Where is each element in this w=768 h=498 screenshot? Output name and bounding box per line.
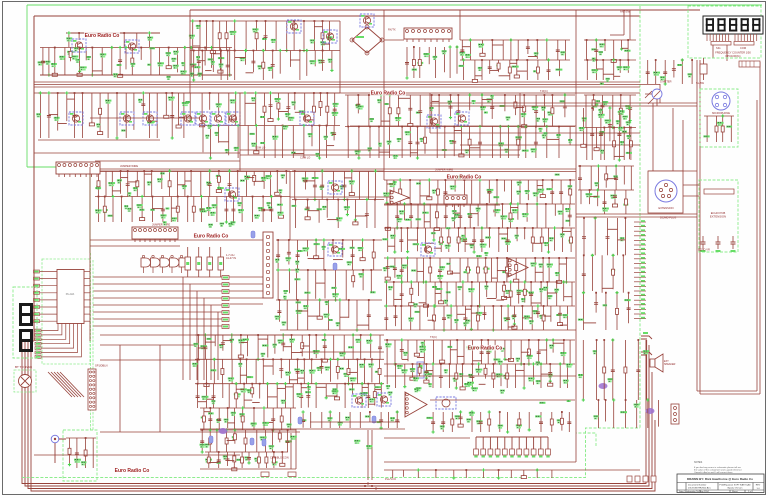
- wire: [235, 384, 237, 408]
- junction: [506, 257, 508, 259]
- label N152: [312, 177, 319, 179]
- capacitor C93: [75, 453, 79, 455]
- wire link: [314, 26, 322, 28]
- wire: [438, 95, 440, 127]
- wire: [507, 127, 509, 159]
- wire: [324, 270, 326, 299]
- wire: [107, 93, 109, 138]
- label N292: [375, 371, 382, 373]
- wire: [148, 33, 150, 47]
- node: [197, 73, 200, 76]
- junction: [277, 239, 279, 241]
- node: [215, 428, 218, 431]
- junction: [370, 334, 372, 336]
- junction: [218, 125, 220, 127]
- capacitor C37: [452, 141, 456, 143]
- resistor R11: [592, 100, 595, 106]
- wire: [613, 60, 615, 80]
- node: [396, 226, 399, 229]
- label N154: [340, 185, 345, 189]
- wire: [481, 95, 483, 127]
- wire link: [515, 107, 524, 109]
- label N250: [415, 311, 420, 313]
- label N50: [617, 66, 623, 70]
- junction: [453, 126, 455, 128]
- junction: [375, 488, 377, 490]
- connector pin row: [35, 324, 78, 354]
- wire: [287, 430, 289, 452]
- label N89: [291, 152, 296, 154]
- junction: [552, 339, 554, 341]
- wire link: [496, 299, 504, 301]
- wire: [119, 345, 121, 432]
- wire diagonal: [57, 372, 81, 397]
- wire: [362, 240, 364, 256]
- wire: [267, 384, 269, 408]
- wire: [227, 51, 229, 81]
- label N330: [365, 416, 370, 418]
- node: [288, 268, 291, 271]
- label N85: [234, 147, 239, 151]
- wire link: [420, 195, 429, 197]
- wire: [417, 204, 419, 228]
- wire: [330, 359, 332, 382]
- wire bus: [584, 39, 636, 41]
- wire: [387, 204, 389, 225]
- resistor R50: [222, 276, 229, 280]
- junction: [313, 92, 315, 94]
- label N328: [338, 422, 343, 426]
- wire: [394, 228, 396, 252]
- svg-text:EXTENSION: EXTENSION: [710, 215, 726, 219]
- wire: [149, 93, 151, 138]
- junction: [429, 257, 431, 259]
- wire: [306, 51, 308, 76]
- wire: [385, 306, 387, 330]
- capacitor C74: [351, 255, 355, 257]
- node: [438, 125, 441, 128]
- wire: [394, 340, 396, 364]
- junction: [74, 92, 76, 94]
- label N153: [319, 186, 324, 190]
- transistor Q11: [211, 112, 225, 125]
- wire: [569, 204, 571, 226]
- wire: [288, 240, 290, 265]
- junction: [371, 485, 373, 487]
- junction: [401, 126, 403, 128]
- label N237: [432, 286, 437, 288]
- label N145: [206, 207, 212, 211]
- label N11: [173, 65, 179, 69]
- junction: [206, 383, 208, 385]
- wire link: [487, 298, 497, 300]
- junction: [489, 227, 491, 229]
- wire: [100, 344, 195, 346]
- junction: [293, 20, 295, 22]
- pll enclosure: [42, 259, 90, 364]
- label N195: [456, 239, 460, 243]
- node: [47, 91, 50, 94]
- junction: [523, 94, 525, 96]
- junction: [603, 127, 605, 129]
- wire: [204, 48, 206, 66]
- junction: [444, 126, 446, 128]
- resistor R68: [505, 267, 508, 273]
- label N263: [81, 461, 87, 465]
- junction: [143, 170, 145, 172]
- junction: [276, 170, 278, 172]
- wire link: [603, 73, 614, 75]
- capacitor C24: [286, 107, 290, 109]
- wire main bus: [34, 81, 640, 83]
- wire: [358, 171, 360, 200]
- wire bus: [384, 179, 575, 181]
- wire: [202, 126, 204, 153]
- wire: [85, 48, 87, 61]
- junction: [530, 281, 532, 283]
- label N31: [268, 67, 273, 71]
- ic U1 mixer: [404, 28, 452, 42]
- wire link: [298, 377, 305, 379]
- wire: [407, 258, 409, 282]
- wire link: [504, 296, 511, 298]
- wire: [491, 258, 493, 282]
- node: [470, 328, 473, 331]
- junction: [272, 50, 274, 52]
- wire: [404, 364, 406, 387]
- wire: [629, 95, 631, 121]
- node: [330, 69, 333, 72]
- connector pin row: [35, 324, 62, 337]
- label N25: [327, 36, 333, 40]
- wire link: [508, 326, 514, 328]
- ground: [440, 358, 445, 363]
- node: [355, 328, 358, 331]
- svg-text:SP1/DBLN: SP1/DBLN: [95, 364, 108, 368]
- label N331: [377, 421, 381, 423]
- junction: [543, 305, 545, 307]
- wire link: [614, 75, 621, 77]
- capacitor C51: [320, 185, 324, 187]
- wire: [510, 282, 512, 306]
- node: [315, 382, 318, 385]
- wire: [387, 228, 389, 252]
- label N176: [405, 219, 411, 221]
- junction: [563, 281, 565, 283]
- wire: [586, 40, 588, 60]
- label N14: [218, 57, 224, 59]
- ground: [349, 191, 354, 196]
- wire: [206, 21, 208, 51]
- wire: [535, 127, 537, 159]
- capacitor C28: [408, 108, 412, 110]
- wire: [197, 359, 199, 383]
- capacitor C35: [408, 142, 412, 144]
- wire: [501, 204, 503, 228]
- wire: [491, 40, 493, 60]
- wire: [315, 335, 317, 358]
- junction: [542, 179, 544, 181]
- node: [385, 304, 388, 307]
- label N61: [423, 53, 429, 57]
- wire bus: [200, 92, 340, 94]
- capacitor C110: [200, 441, 204, 443]
- node: [204, 333, 207, 336]
- wire rail: [240, 154, 520, 156]
- node: [254, 91, 257, 94]
- wire: [82, 93, 84, 138]
- wire: [319, 300, 321, 314]
- junction: [280, 196, 282, 198]
- wire link: [344, 177, 351, 179]
- wire link: [417, 270, 424, 272]
- resistor R47: [531, 237, 534, 243]
- label N200: [505, 241, 511, 245]
- label N203: [549, 237, 554, 241]
- resistor R73: [523, 289, 526, 295]
- wire: [429, 204, 431, 228]
- wire: [121, 197, 123, 223]
- wire: [423, 340, 425, 364]
- wire: [280, 197, 282, 214]
- node: [365, 198, 368, 201]
- node: [513, 323, 516, 326]
- label N210: [322, 246, 326, 250]
- capacitor C9: [321, 61, 325, 63]
- capacitor C85: [394, 316, 398, 318]
- wire: [282, 126, 284, 159]
- wire: [234, 51, 236, 81]
- transformer T1: [436, 397, 456, 409]
- label N107: [560, 100, 565, 102]
- capacitor C38: [478, 142, 482, 144]
- wire link: [499, 233, 508, 235]
- junction: [239, 358, 241, 360]
- wire: [457, 95, 459, 127]
- junction: [307, 269, 309, 271]
- junction: [470, 305, 472, 307]
- label N158: [317, 208, 322, 210]
- capacitor C125: [400, 350, 404, 352]
- wire: [241, 197, 243, 223]
- svg-text:COM: COM: [740, 46, 746, 50]
- node: [225, 428, 228, 431]
- wire link: [432, 100, 439, 102]
- wire: [562, 228, 564, 252]
- capacitor C66: [399, 240, 403, 242]
- wire: [314, 51, 316, 67]
- junction: [294, 92, 296, 94]
- resistor R91: [225, 438, 228, 444]
- junction: [504, 94, 506, 96]
- trimmer VR1: [14, 370, 36, 392]
- wire: [307, 200, 309, 215]
- junction: [544, 94, 546, 96]
- node: [350, 169, 353, 172]
- crystal C118: [209, 436, 213, 443]
- wire: [456, 47, 458, 74]
- wire link: [362, 386, 368, 388]
- wire: [297, 240, 299, 270]
- junction: [604, 39, 606, 41]
- wire: [351, 384, 353, 395]
- label N293: [202, 396, 209, 400]
- node: [272, 428, 275, 431]
- wire: [133, 93, 135, 130]
- label N51: [623, 66, 630, 70]
- junction: [524, 227, 526, 229]
- wire: [324, 335, 326, 357]
- wire: [504, 95, 506, 111]
- node: [406, 256, 409, 259]
- wire: [313, 93, 315, 126]
- wire: [322, 51, 324, 71]
- resistor R88: [241, 416, 244, 422]
- wire: [295, 270, 297, 300]
- label N60: [417, 62, 423, 66]
- capacitor C126: [480, 352, 484, 354]
- wire: [68, 33, 70, 47]
- wire: [91, 48, 93, 76]
- ic U8 display driver PLL02A: [57, 270, 84, 324]
- label N317: [269, 445, 275, 449]
- capacitor C27: [356, 104, 360, 106]
- label N71: [168, 97, 175, 101]
- wire bus: [384, 257, 575, 259]
- label N277: [355, 339, 361, 343]
- resistor R99: [265, 457, 268, 463]
- label N175: [399, 210, 405, 214]
- junction: [209, 170, 211, 172]
- wire: [229, 283, 263, 285]
- resistor R14: [629, 141, 632, 147]
- wire link: [298, 310, 308, 312]
- capacitor C10: [460, 50, 464, 52]
- junction: [389, 94, 391, 96]
- resistor R94: [278, 433, 281, 439]
- wire: [352, 335, 354, 359]
- node: [468, 93, 471, 96]
- wire: [171, 93, 173, 138]
- junction: [492, 305, 494, 307]
- wire link: [278, 111, 288, 113]
- label N239: [457, 286, 462, 290]
- capacitor C83: [529, 294, 533, 296]
- label N255: [504, 317, 510, 321]
- capacitor C62: [458, 216, 462, 218]
- node: [547, 250, 550, 253]
- wire: [373, 240, 375, 270]
- node: [111, 195, 114, 198]
- 7-segment digit DS2: [19, 329, 33, 352]
- wire: [486, 282, 488, 297]
- wire: [334, 93, 336, 126]
- junction: [326, 92, 328, 94]
- svg-text:SL-5W: SL-5W: [696, 81, 704, 85]
- label N332: [385, 343, 392, 347]
- junction: [220, 50, 222, 52]
- junction: [272, 358, 274, 360]
- transistor Q9: [181, 112, 195, 125]
- label N249: [408, 318, 414, 322]
- wire: [189, 284, 191, 380]
- ground: [434, 226, 439, 231]
- transistor Q14: [427, 115, 441, 128]
- wire: [237, 171, 239, 197]
- wire: [401, 282, 403, 306]
- wire: [537, 60, 539, 80]
- resistor R36: [103, 206, 106, 212]
- junction: [251, 383, 253, 385]
- junction: [499, 126, 501, 128]
- wire: [333, 335, 335, 359]
- wire: [265, 430, 267, 452]
- label N76: [251, 97, 256, 101]
- svg-text:T-R(C): T-R(C): [540, 89, 548, 93]
- label N4: [67, 51, 73, 55]
- capacitor C77: [386, 267, 390, 269]
- wire: [274, 335, 276, 354]
- wire: [265, 21, 267, 51]
- node: [354, 218, 357, 221]
- wire: [229, 276, 263, 278]
- label N337: [476, 347, 482, 349]
- wire: [211, 48, 213, 68]
- node: [400, 280, 403, 283]
- node: [276, 382, 279, 385]
- junction: [596, 59, 598, 61]
- label N325: [272, 461, 278, 465]
- ground: [164, 113, 169, 118]
- label N194: [445, 245, 451, 249]
- wire: [234, 21, 236, 51]
- junction: [540, 281, 542, 283]
- label N211: [338, 248, 345, 250]
- junction: [352, 383, 354, 385]
- capacitor C79: [400, 270, 404, 272]
- label N206: [285, 257, 291, 261]
- wire: [535, 95, 537, 127]
- resistor R56: [222, 318, 229, 322]
- wire: [142, 93, 144, 115]
- wire link: [308, 258, 317, 260]
- capacitor C4: [264, 36, 268, 38]
- wire: [558, 60, 560, 76]
- label N221: [336, 322, 340, 326]
- capacitor C58: [559, 192, 563, 194]
- wire: [518, 282, 520, 304]
- junction: [545, 203, 547, 205]
- wire: [386, 340, 388, 364]
- junction: [116, 92, 118, 94]
- wire: [220, 51, 222, 81]
- label N121: [531, 148, 537, 152]
- resistor R22: [326, 106, 329, 112]
- label N37: [478, 44, 484, 48]
- wire: [440, 282, 442, 299]
- wire: [190, 48, 192, 76]
- wire link: [128, 181, 138, 183]
- wire: [440, 228, 442, 252]
- wire: [352, 270, 354, 288]
- label N120: [522, 150, 529, 152]
- wire: [504, 340, 506, 359]
- wire: [424, 127, 426, 154]
- label N172: [533, 192, 539, 196]
- label N244: [522, 290, 528, 292]
- wire: [98, 171, 100, 197]
- wire bus: [190, 50, 340, 52]
